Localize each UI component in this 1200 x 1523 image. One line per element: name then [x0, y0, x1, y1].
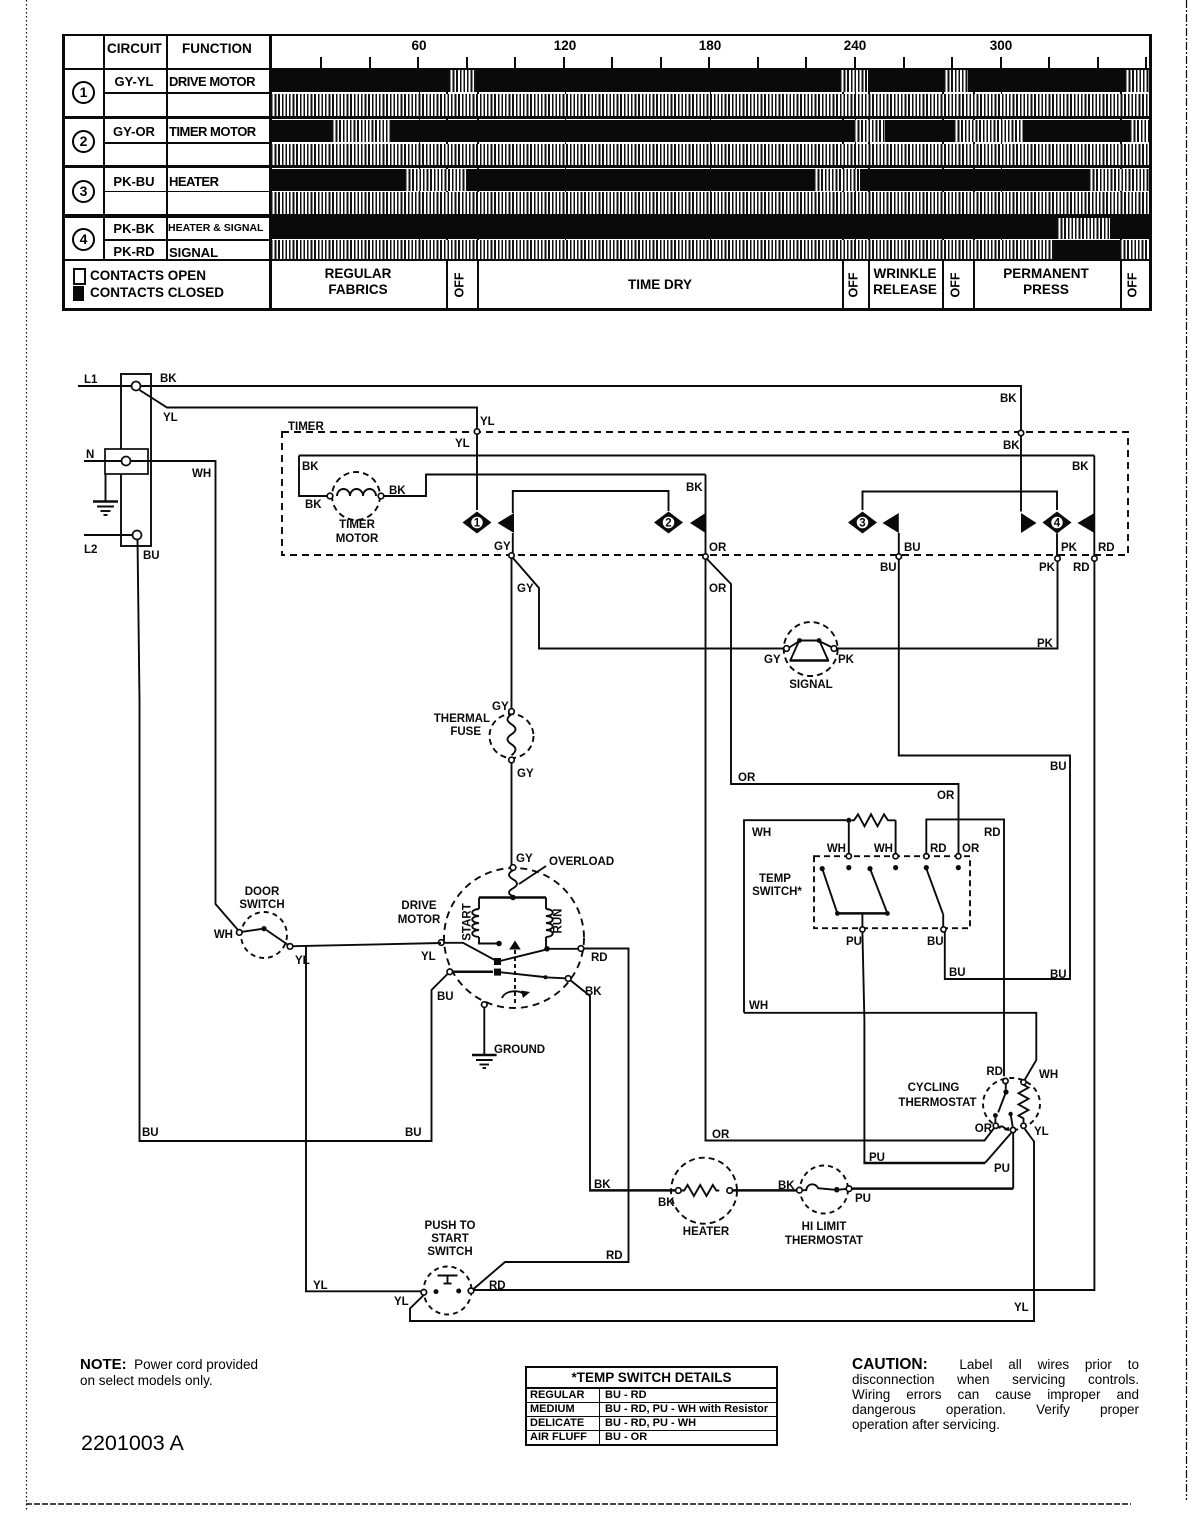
- wire YL rail to cycling thermostat: [410, 1129, 1034, 1321]
- svg-text:THERMAL: THERMAL: [434, 713, 490, 725]
- svg-text:BK: BK: [1072, 461, 1089, 473]
- hi-limit thermostat: [785, 1166, 863, 1248]
- timer motor BK bus: [299, 456, 1094, 512]
- svg-text:SWITCH*: SWITCH*: [752, 886, 802, 898]
- svg-text:PK: PK: [838, 654, 855, 666]
- drive motor: [398, 868, 584, 1008]
- wire BK heater to hi-limit: [733, 1180, 797, 1192]
- svg-text:BK: BK: [302, 461, 319, 473]
- svg-text:L1: L1: [84, 374, 98, 386]
- svg-text:GY: GY: [517, 768, 534, 780]
- timer contact 3: [848, 492, 1057, 555]
- svg-text:RD: RD: [1073, 562, 1090, 574]
- svg-text:BU: BU: [927, 936, 944, 948]
- node YL at timer border top: [474, 429, 479, 434]
- node GY at timer border: [494, 541, 534, 595]
- svg-text:FUSE: FUSE: [450, 726, 481, 738]
- temp switch WH box: [744, 814, 1036, 1079]
- svg-text:PK: PK: [1039, 562, 1056, 574]
- svg-text:OR: OR: [738, 772, 756, 784]
- svg-text:RD: RD: [606, 1250, 623, 1262]
- svg-text:GY: GY: [494, 541, 511, 553]
- svg-text:YL: YL: [163, 412, 178, 424]
- svg-text:BK: BK: [1003, 440, 1020, 452]
- wire PU hi-limit to cycling thermostat: [852, 1132, 1013, 1205]
- svg-text:PUSH TO: PUSH TO: [425, 1220, 476, 1232]
- timer contact 2: [654, 475, 706, 555]
- svg-text:OR: OR: [937, 790, 955, 802]
- door switch: [214, 886, 310, 967]
- svg-text:GY: GY: [492, 701, 509, 713]
- motor ground: [472, 1002, 545, 1068]
- timer contact 4: [1021, 456, 1094, 557]
- svg-text:OR: OR: [712, 1129, 730, 1141]
- svg-text:PK: PK: [1061, 542, 1078, 554]
- start winding: [462, 898, 547, 947]
- temp switch blades: [822, 869, 946, 948]
- timing chart table: [62, 34, 1152, 36]
- svg-text:BU: BU: [437, 991, 454, 1003]
- timer contact 1: [463, 491, 669, 553]
- thermal fuse: [434, 701, 534, 780]
- wire OR from contact 2 to cycling thermostat: [706, 559, 994, 1141]
- svg-text:BK: BK: [594, 1179, 611, 1191]
- terminal N: [84, 449, 131, 466]
- svg-text:TIMER: TIMER: [288, 421, 324, 433]
- svg-text:BK: BK: [305, 499, 322, 511]
- svg-text:BU: BU: [142, 1127, 159, 1139]
- svg-text:N: N: [86, 449, 94, 461]
- svg-text:PU: PU: [994, 1163, 1010, 1175]
- svg-text:YL: YL: [421, 951, 436, 963]
- overload protector: [509, 856, 614, 900]
- svg-text:DRIVE: DRIVE: [401, 900, 436, 912]
- page border left (dotted): [26, 0, 28, 1512]
- svg-text:BU: BU: [1050, 969, 1067, 981]
- svg-text:GY: GY: [517, 583, 534, 595]
- svg-text:MOTOR: MOTOR: [336, 533, 379, 545]
- svg-text:PK: PK: [1037, 638, 1054, 650]
- svg-text:RUN: RUN: [553, 909, 565, 934]
- drive motor top terminal: [510, 865, 516, 871]
- page border right (dotted): [1186, 0, 1188, 1500]
- svg-text:OVERLOAD: OVERLOAD: [549, 856, 614, 868]
- svg-text:CYCLING: CYCLING: [908, 1082, 960, 1094]
- svg-text:TIMER: TIMER: [339, 519, 375, 531]
- push to start switch: [394, 1220, 506, 1315]
- power terminal block: [105, 374, 151, 546]
- svg-text:GROUND: GROUND: [494, 1044, 545, 1056]
- terminal L1: [78, 374, 141, 391]
- part number: [81, 1431, 184, 1456]
- svg-text:OR: OR: [975, 1123, 993, 1135]
- wire RD from contact 4 to push-to-start switch: [474, 561, 1095, 1290]
- svg-text:RD: RD: [986, 1066, 1003, 1078]
- ground at neutral: [93, 474, 118, 515]
- wire BK from L1 to timer contact 4: [141, 373, 1022, 512]
- svg-text:WH: WH: [874, 843, 893, 855]
- svg-text:OR: OR: [709, 542, 727, 554]
- svg-text:BU: BU: [1050, 761, 1067, 773]
- wire PU temp switch to cycling thermostat: [862, 932, 1011, 1164]
- svg-text:RD: RD: [489, 1280, 506, 1292]
- svg-text:WH: WH: [214, 929, 233, 941]
- svg-text:RD: RD: [1098, 542, 1115, 554]
- svg-text:BK: BK: [160, 373, 177, 385]
- svg-text:2: 2: [665, 518, 671, 530]
- temp switch terminals: [820, 854, 961, 872]
- wire OR branch to temp switch: [707, 559, 959, 854]
- svg-text:WH: WH: [192, 468, 211, 480]
- circuit / function labels: [0, 74, 294, 89]
- timer dashed box: [282, 421, 1128, 555]
- svg-text:OR: OR: [709, 583, 727, 595]
- svg-text:GY: GY: [764, 654, 781, 666]
- heater: [671, 1158, 737, 1238]
- run winding: [544, 898, 564, 952]
- centrifugal switch actuator: [502, 941, 530, 1007]
- svg-text:YL: YL: [1014, 1302, 1029, 1314]
- circuit number badges: [72, 81, 95, 104]
- svg-text:OR: OR: [962, 843, 980, 855]
- svg-text:YL: YL: [295, 955, 310, 967]
- wire WH from N to door switch: [131, 461, 239, 930]
- svg-text:THERMOSTAT: THERMOSTAT: [785, 1235, 863, 1247]
- row3 PK-BU heater bars: [271, 169, 1149, 191]
- motor switch blade to run winding: [439, 940, 546, 965]
- svg-text:YL: YL: [1034, 1126, 1049, 1138]
- svg-text:START: START: [462, 903, 474, 940]
- svg-text:1: 1: [474, 518, 481, 530]
- wire GY down to thermal fuse: [511, 558, 513, 710]
- row1 GY-YL drive motor bars: [271, 70, 1149, 92]
- svg-text:HEATER: HEATER: [683, 1226, 730, 1238]
- svg-text:PU: PU: [869, 1152, 885, 1164]
- wire GY from thermal fuse to drive motor: [512, 763, 533, 865]
- svg-text:BU: BU: [904, 542, 921, 554]
- svg-text:WH: WH: [749, 1000, 768, 1012]
- legend row: [446, 259, 448, 308]
- svg-text:YL: YL: [455, 438, 470, 450]
- wire YL from L1 to timer contact 1: [140, 390, 495, 510]
- svg-text:BK: BK: [686, 482, 703, 494]
- caution text: [852, 1357, 1139, 1432]
- svg-text:SIGNAL: SIGNAL: [789, 679, 832, 691]
- svg-text:MOTOR: MOTOR: [398, 914, 441, 926]
- node RD at timer border: [1073, 542, 1115, 574]
- temp switch details table: [525, 1366, 778, 1446]
- wire YL down to push-to-start: [306, 945, 421, 1292]
- svg-text:WH: WH: [827, 843, 846, 855]
- node PK at timer border: [1039, 542, 1078, 574]
- svg-text:HI LIMIT: HI LIMIT: [802, 1221, 847, 1233]
- node BU at timer border: [880, 542, 921, 574]
- wire BK from drive motor to heater: [570, 980, 676, 1209]
- node OR at timer border: [703, 542, 727, 595]
- svg-text:YL: YL: [394, 1296, 409, 1308]
- node BK at timer border top: [1018, 430, 1023, 435]
- svg-text:BU: BU: [405, 1127, 422, 1139]
- svg-text:WH: WH: [1039, 1069, 1058, 1081]
- svg-text:RD: RD: [930, 843, 947, 855]
- svg-text:BU: BU: [143, 550, 160, 562]
- svg-text:DOOR: DOOR: [245, 886, 280, 898]
- wire PK from contact 4 to signal: [837, 561, 1058, 650]
- svg-text:4: 4: [1054, 518, 1061, 530]
- svg-text:PU: PU: [855, 1193, 871, 1205]
- temp switch RD link: [926, 819, 1004, 1076]
- row2 GY-OR timer motor bars: [271, 120, 1149, 142]
- svg-text:BK: BK: [1000, 393, 1017, 405]
- svg-text:THERMOSTAT: THERMOSTAT: [898, 1097, 976, 1109]
- wire BU from contact 3 to temp switch: [899, 559, 1070, 981]
- svg-text:YL: YL: [480, 416, 495, 428]
- wire YL door switch to drive motor: [293, 943, 441, 963]
- row4 PK-BK / PK-RD bars: [271, 218, 1149, 239]
- svg-text:PU: PU: [846, 936, 862, 948]
- terminal L2: [84, 531, 142, 557]
- svg-text:BK: BK: [778, 1180, 795, 1192]
- svg-text:SWITCH: SWITCH: [427, 1246, 472, 1258]
- wire RD from drive motor to push-to-start: [474, 946, 629, 1289]
- motor switch blade BU to BK: [447, 969, 571, 982]
- svg-text:3: 3: [859, 518, 865, 530]
- svg-text:L2: L2: [84, 544, 97, 556]
- svg-text:SWITCH: SWITCH: [239, 899, 284, 911]
- svg-text:BU: BU: [880, 562, 897, 574]
- svg-text:START: START: [431, 1233, 468, 1245]
- wire BU from L2 to drive motor: [138, 540, 454, 1142]
- svg-text:GY: GY: [516, 853, 533, 865]
- signal (buzzer): [764, 622, 855, 691]
- wire from timer motor to contact 2: [384, 475, 706, 497]
- svg-text:WH: WH: [752, 827, 771, 839]
- wire GY branch to signal: [513, 558, 785, 649]
- svg-text:YL: YL: [313, 1280, 328, 1292]
- svg-text:TEMP: TEMP: [759, 873, 791, 885]
- timer motor: [327, 472, 384, 545]
- page border bottom (dotted): [26, 1503, 1131, 1505]
- cycling thermostat: [898, 1066, 1058, 1175]
- temp switch dashed box: [752, 843, 980, 928]
- svg-text:BK: BK: [585, 986, 602, 998]
- note text: [80, 1357, 258, 1388]
- svg-text:RD: RD: [591, 952, 608, 964]
- svg-text:RD: RD: [984, 827, 1001, 839]
- svg-text:BU: BU: [949, 967, 966, 979]
